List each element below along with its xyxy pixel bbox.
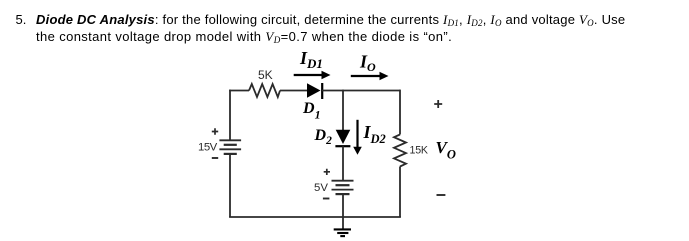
svg-text:15K: 15K xyxy=(410,145,428,157)
wire resistor to diode D1 xyxy=(280,90,307,92)
wire middle vertical upper xyxy=(342,90,344,130)
svg-text:D1: D1 xyxy=(302,100,321,122)
svg-text:5K: 5K xyxy=(258,68,273,82)
wire top-left horizontal segment xyxy=(229,90,249,92)
minus sign battery 5V xyxy=(323,198,330,200)
wire D1 cathode to top-right corner xyxy=(322,90,400,92)
svg-text:ID1: ID1 xyxy=(299,48,323,71)
wire D2 to battery 5V xyxy=(342,146,344,180)
minus sign battery 15V xyxy=(212,157,218,159)
wire right vertical lower xyxy=(399,167,401,218)
minus sign VO xyxy=(437,194,446,196)
svg-text:ID2: ID2 xyxy=(363,122,386,146)
wire left vertical upper xyxy=(229,90,231,141)
resistor R2 15K zigzag xyxy=(394,135,406,167)
current arrow ID1 xyxy=(294,74,323,76)
wire bottom horizontal xyxy=(229,216,401,218)
current arrow ID2 xyxy=(356,120,358,148)
current arrow IO xyxy=(351,75,381,77)
diode D2 xyxy=(336,130,351,144)
svg-text:D2: D2 xyxy=(314,127,333,147)
wire right vertical upper xyxy=(399,90,401,135)
plus sign VO xyxy=(434,100,442,108)
battery V2 5V xyxy=(332,181,354,194)
resistor R1 5K zigzag xyxy=(249,84,280,97)
svg-text:5V: 5V xyxy=(314,182,328,194)
svg-text:IO: IO xyxy=(359,52,376,75)
diode D1 xyxy=(307,83,321,97)
svg-text:VO: VO xyxy=(436,138,456,162)
plus sign battery 15V xyxy=(212,128,218,134)
plus sign battery 5V xyxy=(324,169,330,175)
wire middle vertical lower to ground xyxy=(342,194,344,229)
ground symbol xyxy=(334,229,351,236)
svg-text:15V: 15V xyxy=(198,142,218,154)
battery V1 15V xyxy=(219,140,241,154)
wire left vertical lower xyxy=(229,154,231,217)
